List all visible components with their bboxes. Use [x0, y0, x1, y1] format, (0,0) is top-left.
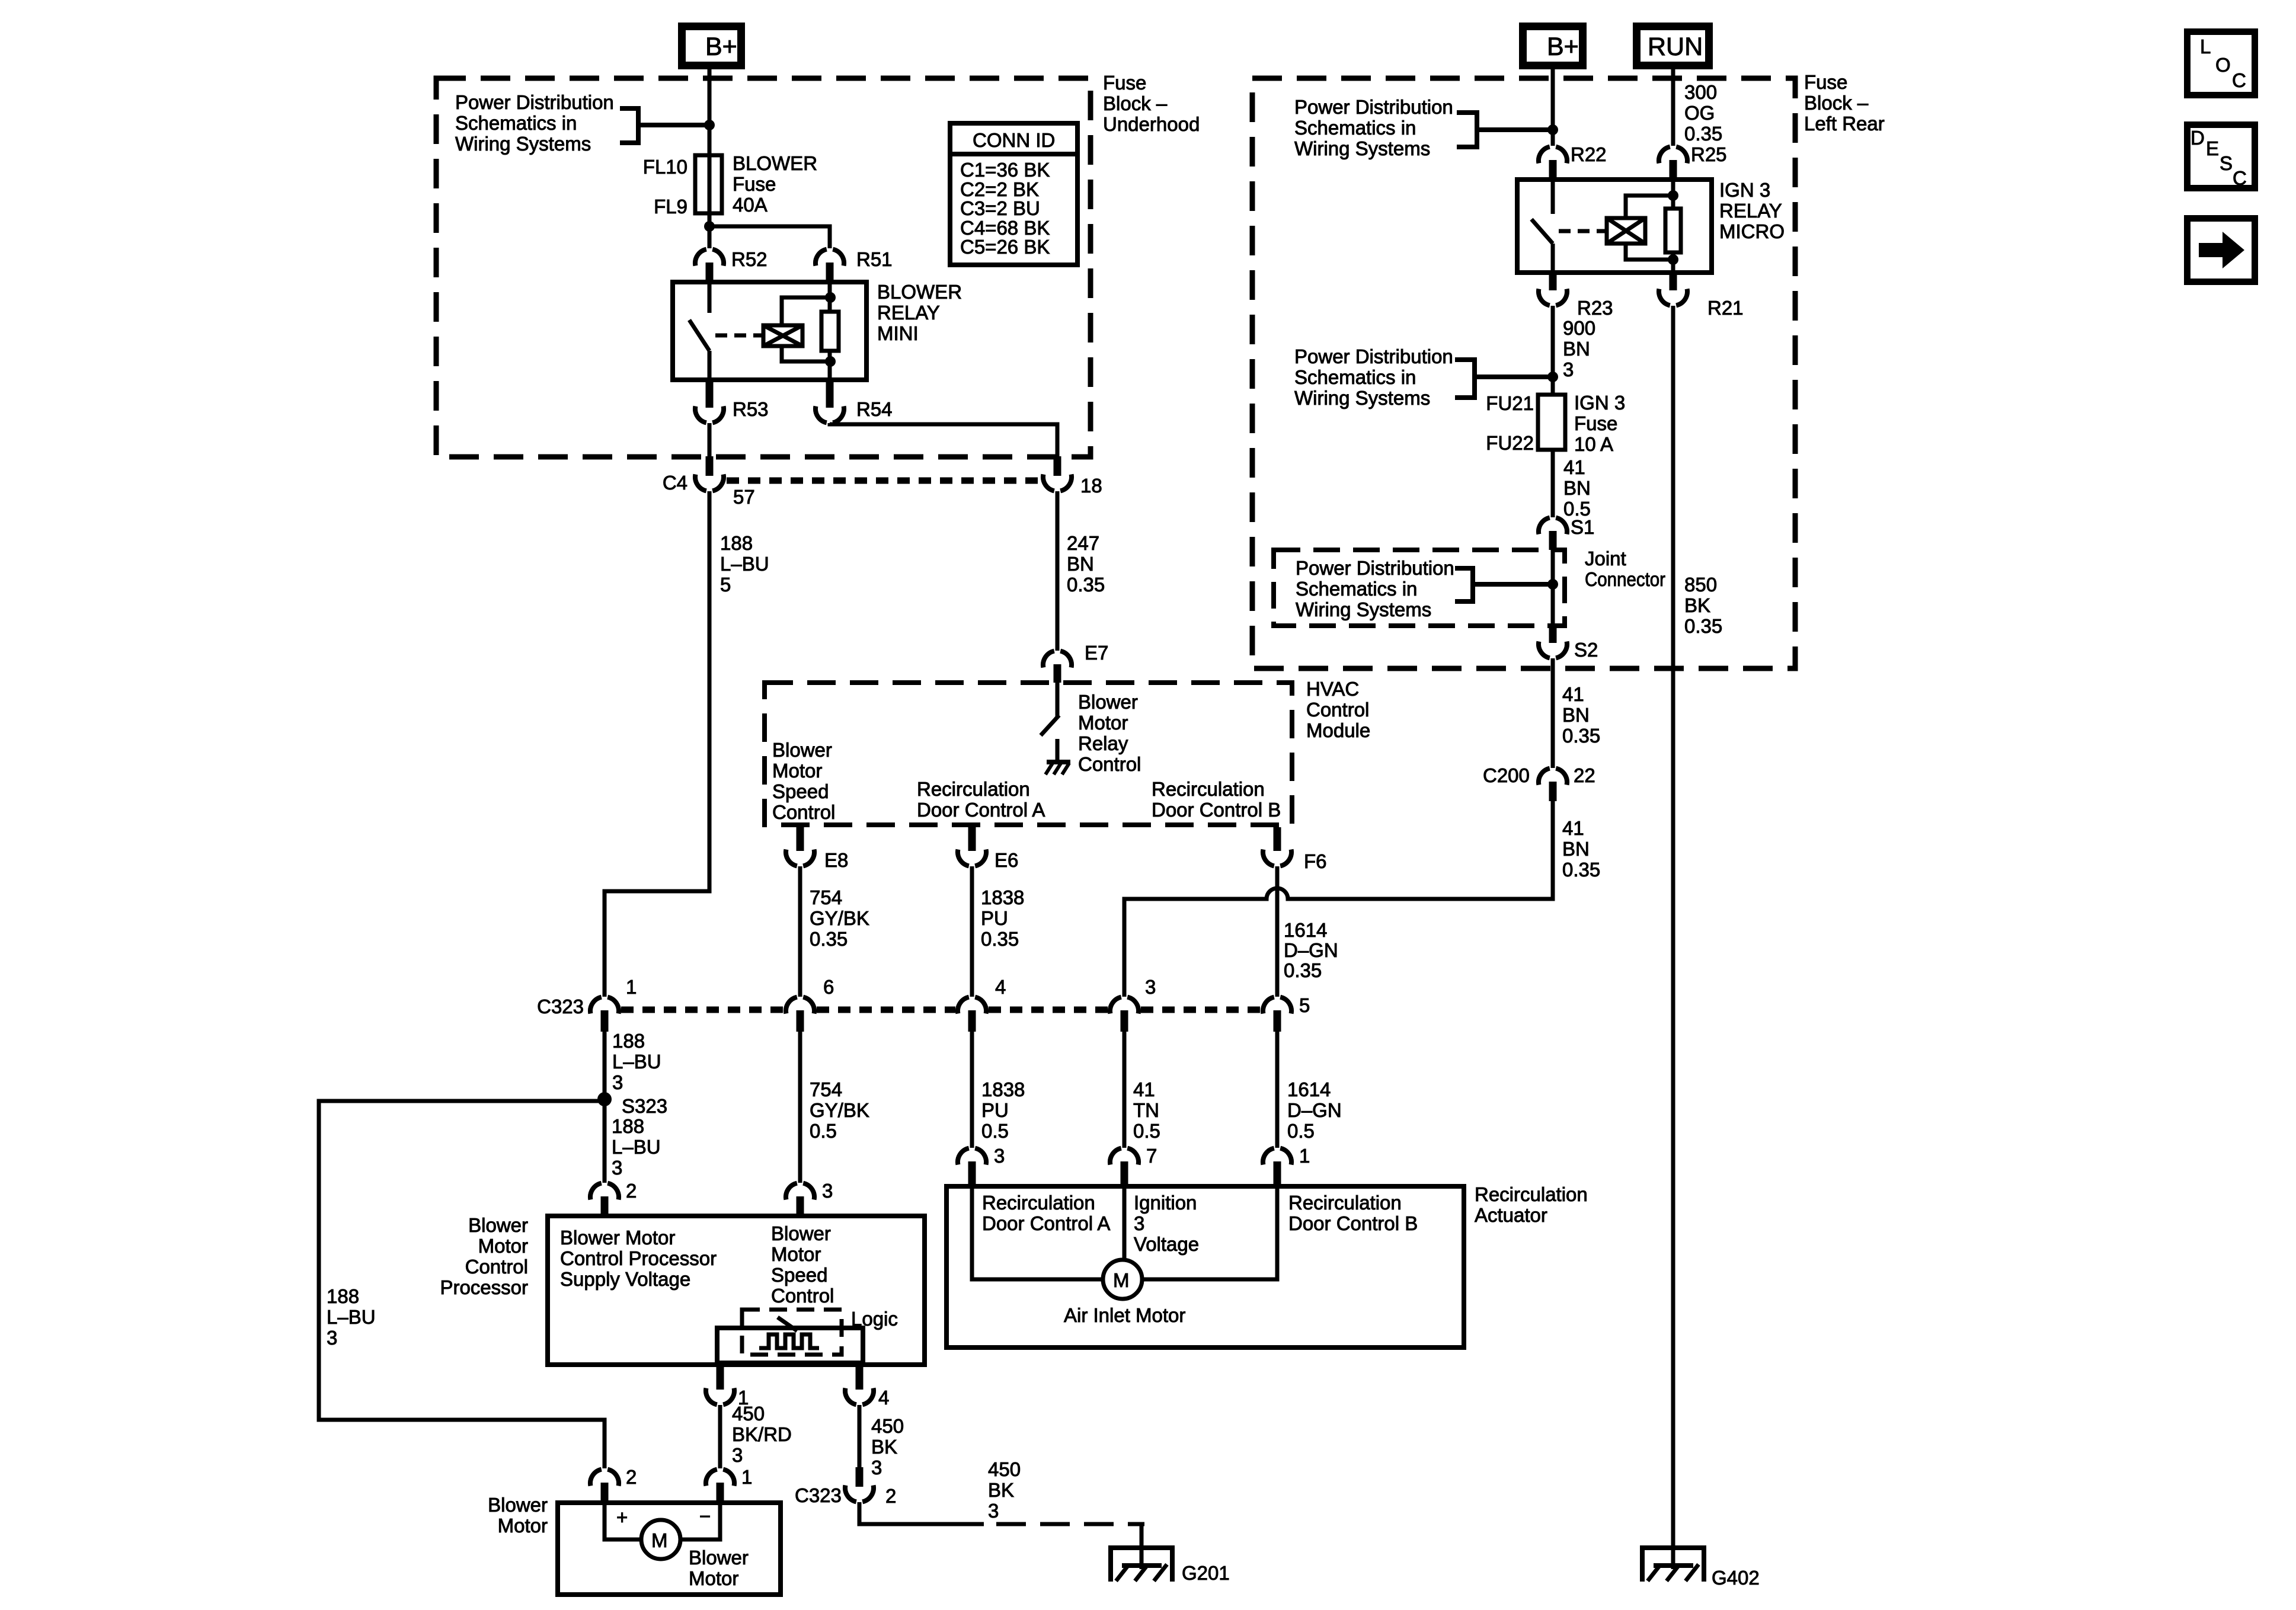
svg-text:MICRO: MICRO	[1719, 220, 1785, 242]
wire in-harness 450 BK to G201	[996, 1522, 1144, 1526]
connector C323 pin 3	[1110, 976, 1156, 1032]
svg-text:FL9: FL9	[654, 196, 687, 217]
label wire 900 BN 3	[1563, 317, 1595, 380]
svg-text:Door Control B: Door Control B	[1152, 799, 1281, 821]
svg-text:188: 188	[612, 1030, 645, 1052]
svg-text:C5=26 BK: C5=26 BK	[960, 236, 1050, 258]
svg-text:Power Distribution: Power Distribution	[1296, 557, 1454, 579]
svg-text:41: 41	[1562, 817, 1584, 839]
svg-text:C323: C323	[537, 996, 584, 1017]
svg-text:BLOWER: BLOWER	[877, 281, 962, 303]
label Recirculation Door Control A (module)	[917, 778, 1045, 821]
svg-text:E8: E8	[824, 849, 848, 871]
legend box arrow	[2188, 219, 2255, 282]
svg-text:S323: S323	[622, 1095, 667, 1117]
svg-text:0.5: 0.5	[1287, 1120, 1315, 1142]
svg-text:188: 188	[327, 1285, 359, 1307]
svg-text:Speed: Speed	[772, 780, 829, 802]
svg-text:0.5: 0.5	[981, 1120, 1009, 1142]
svg-text:B+: B+	[1547, 33, 1579, 61]
svg-text:Control Processor: Control Processor	[560, 1247, 717, 1269]
blower motor box	[558, 1503, 781, 1595]
svg-text:Recirculation: Recirculation	[1152, 778, 1265, 800]
svg-text:57: 57	[733, 486, 755, 508]
connector C323 pin 5	[1263, 994, 1310, 1032]
svg-text:Connector: Connector	[1585, 568, 1665, 590]
wire blower motor internal	[605, 1503, 720, 1539]
svg-text:L: L	[2200, 36, 2211, 57]
svg-text:C: C	[2232, 69, 2246, 91]
wire R54 to connector 18	[830, 423, 1057, 459]
svg-text:R23: R23	[1577, 297, 1613, 319]
wire C323 pin 2 to G201	[859, 1502, 984, 1524]
speed control driver box	[717, 1328, 863, 1363]
connector pin E6	[958, 827, 1018, 871]
wire C323 pin 5 to actuator pin 1	[1275, 1032, 1280, 1148]
svg-text:450: 450	[732, 1403, 765, 1425]
connector pin R52	[695, 248, 768, 282]
svg-text:22: 22	[1574, 764, 1595, 786]
svg-text:0.5: 0.5	[810, 1120, 837, 1142]
label Blower Motor Control Processor (outside)	[440, 1214, 528, 1298]
svg-text:R52: R52	[731, 248, 768, 270]
relay BLOWER RELAY MINI box	[673, 282, 866, 380]
svg-text:Door Control A: Door Control A	[917, 799, 1045, 821]
svg-text:Door Control B: Door Control B	[1288, 1212, 1418, 1234]
svg-text:Processor: Processor	[440, 1276, 528, 1298]
label wire 188 L-BU 5	[720, 532, 769, 596]
label fuse block left rear	[1804, 71, 1885, 135]
label wire 754 GY/BK 0.35	[810, 886, 869, 950]
svg-text:Module: Module	[1306, 719, 1370, 741]
power symbol B+ (left)	[682, 27, 741, 66]
svg-text:Blower: Blower	[689, 1547, 749, 1569]
wire bracket to power distribution (right lower)	[1455, 360, 1553, 398]
svg-text:3: 3	[327, 1327, 337, 1349]
svg-text:Blower: Blower	[488, 1494, 548, 1516]
svg-text:Wiring Systems: Wiring Systems	[1294, 137, 1430, 159]
joint connector box border	[1274, 550, 1565, 626]
svg-text:1: 1	[626, 976, 637, 998]
svg-text:D–GN: D–GN	[1287, 1099, 1342, 1121]
label Recirculation Door Control A (actuator)	[982, 1192, 1110, 1234]
connector pin R25	[1659, 143, 1727, 180]
power symbol RUN	[1637, 27, 1709, 66]
svg-text:Wiring Systems: Wiring Systems	[1296, 598, 1431, 620]
svg-text:3: 3	[822, 1180, 833, 1202]
svg-text:Control: Control	[1306, 699, 1369, 721]
svg-text:Motor: Motor	[689, 1567, 738, 1589]
svg-text:0.35: 0.35	[810, 928, 848, 950]
ground G201	[1108, 1547, 1230, 1584]
svg-text:Motor: Motor	[478, 1235, 528, 1257]
wire down to G201	[1140, 1524, 1144, 1569]
wire R53 to C4-57	[708, 423, 712, 459]
svg-text:BK: BK	[988, 1479, 1014, 1501]
wire coil to resistor bottom (left relay)	[782, 346, 830, 361]
svg-text:2: 2	[626, 1180, 637, 1202]
svg-text:3: 3	[612, 1157, 622, 1179]
svg-text:Recirculation: Recirculation	[1288, 1192, 1402, 1214]
svg-text:0.35: 0.35	[1284, 959, 1322, 981]
svg-text:3: 3	[871, 1457, 882, 1478]
svg-text:Blower: Blower	[772, 739, 832, 761]
svg-text:247: 247	[1067, 532, 1099, 554]
svg-text:4: 4	[878, 1387, 889, 1409]
connector pin R53	[695, 380, 769, 422]
svg-text:C4: C4	[663, 472, 687, 494]
svg-text:Recirculation: Recirculation	[982, 1192, 1095, 1214]
svg-text:0.35: 0.35	[1684, 615, 1722, 637]
connector pin R23	[1539, 273, 1613, 319]
label wire 188 L-BU 3 (above S323)	[612, 1030, 661, 1093]
svg-text:OG: OG	[1684, 102, 1715, 124]
switch blower motor relay control	[1041, 683, 1059, 735]
node coil bottom (right relay)	[1668, 254, 1678, 265]
svg-text:R21: R21	[1707, 297, 1744, 319]
svg-text:E: E	[2206, 137, 2219, 159]
svg-text:E7: E7	[1085, 642, 1108, 664]
svg-text:Recirculation: Recirculation	[1475, 1183, 1588, 1205]
svg-text:PU: PU	[981, 907, 1008, 929]
svg-text:Blower Motor: Blower Motor	[560, 1227, 675, 1249]
svg-text:HVAC: HVAC	[1306, 678, 1359, 700]
label wire 754 GY/BK 0.5	[810, 1078, 869, 1142]
svg-text:40A: 40A	[733, 194, 768, 216]
svg-text:IGN 3: IGN 3	[1719, 179, 1770, 201]
relay coil (left)	[763, 325, 802, 346]
svg-text:450: 450	[988, 1458, 1021, 1480]
connector processor pin 4	[845, 1365, 889, 1409]
blower motor control processor box	[548, 1216, 925, 1365]
svg-text:CONN ID: CONN ID	[973, 129, 1055, 151]
svg-text:Wiring Systems: Wiring Systems	[1294, 387, 1430, 409]
svg-text:B+: B+	[705, 33, 737, 61]
motor air inlet M	[1103, 1260, 1142, 1299]
svg-text:1: 1	[1299, 1145, 1310, 1167]
relay coil (right)	[1607, 218, 1645, 244]
svg-text:L–BU: L–BU	[720, 553, 769, 575]
svg-text:R51: R51	[856, 248, 893, 270]
svg-text:0.35: 0.35	[1562, 725, 1600, 747]
wire bracket to power distribution (right top)	[1457, 113, 1553, 147]
legend box LOC	[2188, 32, 2255, 95]
svg-text:F6: F6	[1304, 850, 1327, 872]
label wire 41 BN 0.35 (upper)	[1562, 683, 1600, 747]
svg-text:FL10: FL10	[643, 156, 687, 178]
legend box DESC	[2188, 125, 2255, 190]
svg-text:TN: TN	[1133, 1099, 1159, 1121]
node junction joint connector	[1547, 579, 1558, 590]
svg-text:GY/BK: GY/BK	[810, 907, 869, 929]
svg-text:Fuse: Fuse	[1103, 72, 1146, 94]
square wave symbol	[759, 1334, 819, 1348]
svg-text:L–BU: L–BU	[612, 1051, 661, 1073]
svg-text:Fuse: Fuse	[1804, 71, 1847, 93]
wire C323 pin 1 to S323	[603, 1032, 607, 1183]
node coil bottom (left relay)	[825, 356, 836, 367]
connector actuator pin 7	[1110, 1145, 1157, 1186]
svg-text:Blower: Blower	[771, 1222, 831, 1244]
wire B+ to fuse FL10	[708, 69, 712, 226]
svg-text:10 A: 10 A	[1574, 433, 1613, 455]
svg-text:+: +	[616, 1506, 628, 1528]
svg-text:Schematics in: Schematics in	[1294, 366, 1416, 388]
label wire 188 L-BU 3 (below S323)	[612, 1115, 661, 1179]
wire 57 down circuit 188	[605, 491, 709, 997]
svg-text:300: 300	[1684, 81, 1717, 103]
switch logic blade	[778, 1317, 797, 1331]
svg-text:RELAY: RELAY	[877, 302, 940, 324]
svg-text:0.35: 0.35	[1562, 859, 1600, 881]
node coil top (right relay)	[1668, 190, 1678, 201]
svg-text:MINI: MINI	[877, 322, 919, 344]
connector pin R22	[1539, 143, 1607, 180]
wire in-harness C323 row	[621, 1007, 1261, 1013]
label Ignition 3 Voltage	[1134, 1192, 1199, 1255]
connector pin F6	[1263, 827, 1327, 872]
label wire 850 BK 0.35	[1684, 574, 1722, 637]
label wire 188 L-BU 3 (loop)	[327, 1285, 376, 1349]
svg-text:Schematics in: Schematics in	[1296, 578, 1417, 600]
svg-text:Wiring Systems: Wiring Systems	[455, 133, 591, 155]
svg-text:3: 3	[994, 1145, 1005, 1167]
wire coil to resistor top (left relay)	[782, 297, 830, 325]
label wire 1614 D-GN 0.35	[1284, 919, 1338, 981]
svg-text:Underhood: Underhood	[1103, 113, 1200, 135]
svg-text:3: 3	[1145, 976, 1156, 998]
label wire 1838 PU 0.5	[981, 1078, 1025, 1142]
connector actuator pin 3	[958, 1145, 1005, 1186]
svg-text:Supply Voltage: Supply Voltage	[560, 1268, 690, 1290]
svg-text:Control: Control	[465, 1256, 528, 1278]
svg-text:Speed: Speed	[771, 1264, 827, 1286]
label power distribution schematics (joint box)	[1296, 557, 1454, 620]
wire bracket to power distribution (joint box)	[1455, 568, 1553, 601]
fuse block underhood border	[436, 78, 1091, 457]
svg-text:0.35: 0.35	[1684, 123, 1722, 145]
relay armature dashed link (right)	[1559, 229, 1607, 233]
svg-text:0.35: 0.35	[1067, 574, 1105, 596]
label Blower Motor Control Processor Supply Voltage	[560, 1227, 717, 1290]
svg-text:Blower: Blower	[468, 1214, 528, 1236]
svg-text:1614: 1614	[1284, 919, 1327, 941]
wire S323 loop to blower motor pin 2	[319, 1101, 605, 1468]
svg-text:M: M	[1113, 1269, 1130, 1291]
svg-text:41: 41	[1133, 1078, 1155, 1100]
svg-text:R53: R53	[733, 398, 769, 420]
svg-text:5: 5	[1299, 994, 1310, 1016]
label wire 41 BN 0.35 (lower)	[1562, 817, 1600, 881]
svg-text:RELAY: RELAY	[1719, 200, 1782, 222]
wire S1 to S2	[1551, 550, 1555, 627]
fuse block left rear border	[1252, 78, 1795, 668]
svg-text:E6: E6	[994, 849, 1018, 871]
resistor element (right relay)	[1665, 180, 1681, 273]
connector C4 pin 57	[695, 456, 724, 491]
connector pin R51	[816, 248, 893, 282]
svg-text:D–GN: D–GN	[1284, 939, 1338, 961]
svg-text:L–BU: L–BU	[612, 1136, 661, 1158]
svg-text:3: 3	[1134, 1212, 1144, 1234]
svg-text:O: O	[2215, 54, 2231, 76]
label wire 41 BN 0.5	[1563, 456, 1591, 520]
connector blower motor pin 1	[706, 1466, 752, 1503]
svg-text:18: 18	[1080, 475, 1102, 497]
label wire 41 TN 0.5	[1133, 1078, 1160, 1142]
svg-text:754: 754	[810, 886, 842, 908]
svg-text:R25: R25	[1691, 143, 1727, 165]
svg-text:Blower: Blower	[1078, 691, 1138, 713]
svg-text:1: 1	[741, 1466, 752, 1488]
svg-text:3: 3	[732, 1444, 743, 1466]
svg-text:41: 41	[1563, 456, 1585, 478]
svg-text:1838: 1838	[981, 886, 1024, 908]
label Blower Motor (inside)	[689, 1547, 749, 1589]
connector C323 pin 1	[590, 976, 637, 1032]
svg-text:Power Distribution: Power Distribution	[1294, 96, 1453, 118]
connector processor pin 2	[590, 1180, 637, 1216]
wire R23 to fuse FU21	[1551, 306, 1555, 395]
wire junction to R52	[708, 226, 712, 248]
svg-text:G201: G201	[1182, 1562, 1230, 1584]
label BLOWER RELAY MINI	[877, 281, 962, 344]
svg-text:Motor: Motor	[771, 1243, 821, 1265]
splice S323	[597, 1092, 667, 1117]
wire processor pin 4 to C323 pin 2	[858, 1405, 862, 1468]
node junction below B+	[704, 120, 715, 130]
node junction below B+ right	[1547, 124, 1558, 135]
svg-text:BK/RD: BK/RD	[732, 1423, 792, 1445]
wire FU22 to S1	[1551, 450, 1555, 517]
svg-text:Block –: Block –	[1804, 92, 1869, 114]
label Blower Motor Speed Control (module)	[772, 739, 835, 823]
wire C323 pin 3 to actuator pin 7	[1123, 1032, 1127, 1148]
connector pin E7	[1043, 642, 1108, 683]
svg-text:3: 3	[1563, 359, 1574, 380]
svg-text:0.35: 0.35	[981, 928, 1019, 950]
connector actuator pin 1	[1263, 1145, 1310, 1186]
wire coil to resistor bottom (right relay)	[1626, 244, 1673, 260]
svg-text:BN: BN	[1562, 704, 1590, 726]
connector pin R21	[1659, 273, 1744, 319]
fuse FL10 BLOWER 40A	[695, 155, 722, 213]
wire actuator pin 7 to air inlet motor	[1123, 1186, 1127, 1261]
wire C323 pin 4 to actuator pin 3	[970, 1032, 974, 1148]
connector C200 pin 22	[1483, 764, 1595, 801]
svg-text:Ignition: Ignition	[1134, 1192, 1197, 1214]
svg-text:Control: Control	[1078, 753, 1141, 775]
wire bracket to power distribution (left)	[620, 108, 709, 143]
label Blower Motor (outside)	[488, 1494, 548, 1537]
label Blower Motor Speed Control (processor)	[771, 1222, 834, 1307]
svg-text:Voltage: Voltage	[1134, 1233, 1199, 1255]
svg-text:Schematics in: Schematics in	[455, 112, 577, 134]
ground G402	[1640, 1547, 1760, 1589]
recirculation actuator box	[946, 1186, 1464, 1347]
connector C323 pin 2 (bottom)	[795, 1467, 896, 1507]
svg-text:D: D	[2191, 127, 2205, 149]
label wire 247 BN 0.35	[1067, 532, 1105, 596]
label Recirculation Door Control B (actuator)	[1288, 1192, 1418, 1234]
connector C323 pin 6	[786, 976, 834, 1032]
svg-text:M: M	[651, 1529, 668, 1551]
svg-text:41: 41	[1562, 683, 1584, 705]
svg-text:2: 2	[885, 1485, 896, 1507]
svg-text:850: 850	[1684, 574, 1717, 596]
svg-text:Power Distribution: Power Distribution	[1294, 345, 1453, 367]
motor blower M	[641, 1520, 680, 1559]
label power distribution schematics (right lower)	[1294, 345, 1453, 409]
svg-text:Schematics in: Schematics in	[1294, 117, 1416, 139]
svg-text:Motor: Motor	[772, 760, 822, 782]
svg-text:Motor: Motor	[1078, 712, 1128, 734]
wire RUN to R25	[1671, 69, 1675, 146]
node coil top (left relay)	[825, 292, 836, 303]
label wire 300 OG 0.35	[1684, 81, 1722, 145]
fuse FU21 IGN 3 10A	[1538, 395, 1565, 450]
svg-text:BLOWER: BLOWER	[733, 152, 817, 174]
svg-text:L–BU: L–BU	[327, 1306, 376, 1328]
label Blower Motor Relay Control	[1078, 691, 1141, 775]
wire R21 to G402 circuit 850	[1671, 306, 1675, 1569]
wire in-harness C4 row	[727, 478, 1041, 484]
svg-text:G402: G402	[1712, 1567, 1760, 1589]
wire E8 to C323 pin 6	[798, 866, 802, 997]
svg-text:C3=2 BU: C3=2 BU	[960, 197, 1040, 219]
connector joint S2	[1539, 625, 1598, 661]
svg-text:IGN 3: IGN 3	[1574, 392, 1625, 414]
svg-text:Motor: Motor	[498, 1515, 548, 1537]
label HVAC Control Module	[1306, 678, 1370, 741]
resistor element (left relay)	[821, 282, 839, 380]
relay switch contact (right)	[1531, 180, 1553, 273]
node junction above FU21	[1547, 372, 1558, 382]
connector C323 pin 4	[958, 976, 1006, 1032]
svg-text:C200: C200	[1483, 764, 1530, 786]
wire processor pin 1 to blower motor pin 1	[718, 1405, 722, 1468]
svg-text:S2: S2	[1574, 639, 1598, 661]
svg-text:Fuse: Fuse	[733, 173, 776, 195]
svg-text:Joint: Joint	[1585, 548, 1626, 569]
label power distribution schematics (right top)	[1294, 96, 1453, 159]
svg-text:Relay: Relay	[1078, 732, 1128, 754]
power symbol B+ (right)	[1523, 27, 1583, 66]
wire B+ right to R22	[1551, 69, 1555, 146]
wire 18 down circuit 247	[1056, 491, 1060, 651]
label power distribution schematics (left)	[455, 91, 614, 155]
wire C323 pin 6 to processor pin 3	[798, 1032, 802, 1183]
svg-text:BN: BN	[1562, 838, 1590, 860]
svg-text:Block –: Block –	[1103, 92, 1168, 114]
wire actuator pin 1 to air inlet motor	[1142, 1186, 1277, 1279]
label joint connector	[1585, 548, 1665, 590]
label wire 450 BK 3 (lower)	[988, 1458, 1021, 1522]
label fuse block underhood	[1103, 72, 1200, 135]
connector C4 pin 18	[1043, 456, 1102, 497]
wire branch to R51	[709, 226, 830, 248]
wire coil to resistor top (right relay)	[1626, 196, 1673, 218]
label wire 450 BK 3 (upper)	[871, 1415, 904, 1478]
label BLOWER Fuse 40A	[733, 152, 817, 216]
label Recirculation Door Control B (module)	[1152, 778, 1281, 821]
svg-text:BN: BN	[1563, 477, 1591, 499]
node junction below fuse	[704, 221, 715, 232]
wire S2 to C200	[1551, 658, 1555, 768]
svg-text:FU21: FU21	[1486, 392, 1534, 414]
label IGN 3 Fuse 10 A	[1574, 392, 1625, 455]
svg-text:BN: BN	[1563, 338, 1590, 360]
